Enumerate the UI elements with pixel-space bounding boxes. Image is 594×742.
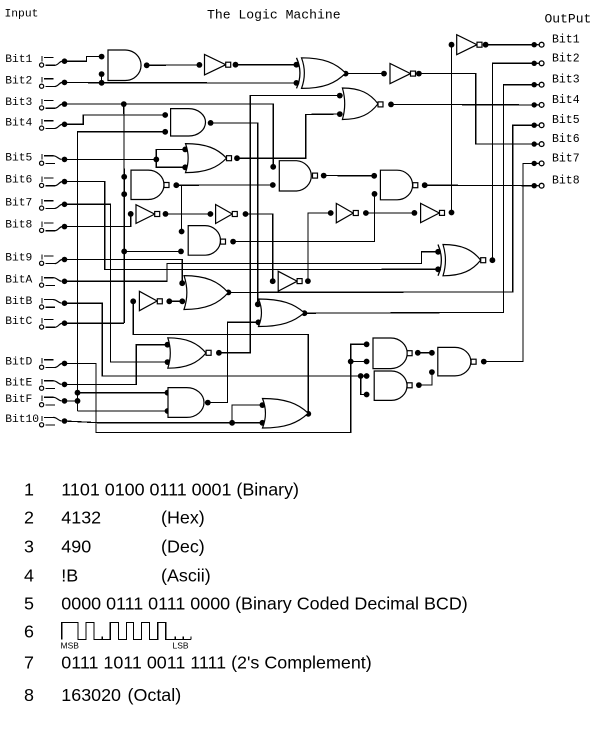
output terminal out Bit7 xyxy=(532,152,580,166)
output terminal out Bit8 xyxy=(532,175,580,189)
input switch Bit9 xyxy=(5,253,67,266)
svg-text:Bit6: Bit6 xyxy=(552,133,580,146)
input switch BitE xyxy=(5,377,67,390)
output terminal out Bit2 xyxy=(532,52,580,66)
input switch BitB xyxy=(5,296,67,309)
NAND gate U22 xyxy=(374,371,407,400)
wire Bit3/BitC vertical bus x124 with taps to NAND U7 inputs and NAND U12 bottom feed xyxy=(123,104,125,323)
svg-text:OutPut: OutPut xyxy=(545,11,592,26)
wire Bit2 junction stub up to AND U1 bottom input xyxy=(101,74,103,83)
svg-text:5: 5 xyxy=(24,594,34,614)
svg-text:Bit8: Bit8 xyxy=(552,175,580,188)
wire Bit5 switch to split loop feeding NOR U9 both inputs xyxy=(65,158,157,160)
wire Bit4 switch step up to AND U6 top input xyxy=(65,115,166,124)
wire BitD switch down x96, east at y433, up x351 to NAND U21 inputs xyxy=(65,344,367,432)
svg-text:Bit1: Bit1 xyxy=(552,34,580,47)
svg-text:MSB: MSB xyxy=(61,641,80,651)
wire Bit7 switch down x110 and east to NOR U20 bottom input xyxy=(65,204,168,362)
wire NAND U22 lower input branch from y376 line xyxy=(361,376,367,395)
input switch BitC xyxy=(5,316,67,329)
wire NAND U27 output east, up x522.9 to output Bit7 xyxy=(484,163,532,361)
wire NOR U20 output east, up x250, east to NOR U5 top input xyxy=(219,96,340,353)
wire NOT U25 output to OR U16 bottom input xyxy=(169,300,182,302)
svg-text:Bit2: Bit2 xyxy=(5,75,32,87)
wire Bit2 switch to XOR U3, junction to AND U1 bottom input xyxy=(65,81,297,84)
wire XOR U3 output to NOT U4 input xyxy=(346,73,384,75)
NOR gate U5 (to output Bit4) xyxy=(342,88,378,120)
output terminal out Bit1 xyxy=(532,34,580,48)
svg-text:0111 1011 0011 1111 (2's Compl: 0111 1011 0011 1111 (2's Complement) xyxy=(61,653,371,673)
svg-text:BitF: BitF xyxy=(5,394,32,406)
wire NOT U26 output to output Bit1 xyxy=(486,44,532,46)
wire NAND U21 lower input branch tap xyxy=(351,361,367,363)
output terminal out Bit6 xyxy=(532,133,580,147)
AND gate U23 (BitF buffer) xyxy=(168,388,204,418)
NOT gate U10 (Bit8) xyxy=(136,205,155,224)
wire NOR U9 output east, up x306, east to NOR U5 bottom input xyxy=(237,114,340,158)
svg-text:BitA: BitA xyxy=(5,274,32,286)
wire BitF switch to vertical bus x77.5 xyxy=(65,400,78,402)
wire Bit10 switch east to OR U24 bottom input with junction riser xyxy=(65,421,263,423)
NAND gate U21 xyxy=(373,338,407,369)
svg-text:Bit8: Bit8 xyxy=(5,220,32,232)
svg-text:8: 8 xyxy=(24,685,34,705)
wire NAND U21 output to NAND U27 top input xyxy=(418,352,432,354)
wire NOT U18 output up x308 east to NOT U14 input xyxy=(308,213,331,281)
input switch Bit2 xyxy=(5,75,67,88)
svg-text:Bit10: Bit10 xyxy=(5,414,39,426)
XNOR gate U19 (to output Bit2) xyxy=(438,245,441,276)
wire AND U6 output east then down x258 to OR U17 top input xyxy=(211,123,258,304)
NAND gate U8 xyxy=(279,161,311,191)
svg-text:BitE: BitE xyxy=(5,377,32,389)
svg-text:(Dec): (Dec) xyxy=(161,537,205,557)
wire BitF vertical bus x77.5 from AND U6 bottom input feed down to AND U23 bottom feed xyxy=(78,132,166,411)
NOT gate U4 xyxy=(390,64,411,84)
wire Bit6 switch down x105 and east to XNOR U19 bottom input xyxy=(65,182,439,270)
NOT gate U26 (to output Bit1) xyxy=(457,35,477,55)
svg-text:2: 2 xyxy=(24,508,34,528)
svg-text:0000 0111 0111 0000 (Binary Co: 0000 0111 0111 0000 (Binary Coded Decima… xyxy=(61,594,467,614)
svg-text:(Octal): (Octal) xyxy=(128,685,182,705)
svg-text:1101 0100 0111 0001 (Binary): 1101 0100 0111 0001 (Binary) xyxy=(61,480,299,500)
wire Bit1 switch to AND U1 top input xyxy=(65,57,102,62)
NOT gate U2 xyxy=(205,55,226,75)
wire NAND U7 output east to NAND U8 bottom input, riser down to NAND U12 top input xyxy=(176,184,272,186)
NOR gate U20 (BitE,Bit7) xyxy=(168,338,206,368)
svg-text:!B: !B xyxy=(61,566,78,586)
svg-text:Bit4: Bit4 xyxy=(552,94,580,107)
NAND gate U12 xyxy=(188,226,220,256)
NOT gate U15 xyxy=(421,203,440,222)
svg-text:7: 7 xyxy=(24,653,34,673)
svg-text:Bit6: Bit6 xyxy=(5,175,32,187)
wire BitF tap east to AND U23 top input xyxy=(78,392,168,394)
svg-text:Bit7: Bit7 xyxy=(552,152,580,165)
svg-text:Bit1: Bit1 xyxy=(5,54,32,66)
NOT gate U14 xyxy=(336,203,353,222)
input switch BitA xyxy=(5,274,67,287)
NAND gate U27 (to output Bit7) xyxy=(438,347,471,376)
wire OR U17 output east, up x503 to output Bit3 xyxy=(304,85,532,314)
OR gate U17 (to output Bit3) xyxy=(259,299,305,327)
svg-text:BitD: BitD xyxy=(5,356,32,368)
svg-text:BitC: BitC xyxy=(5,316,32,328)
NOT gate U18 xyxy=(278,271,297,291)
wire Bit3 switch east, junction at x124, corner down to NAND U8 top input xyxy=(65,104,274,167)
OR gate U24 (Bit10 buffer) xyxy=(263,399,309,429)
wire Bit8 switch east then up to NOT U10 input xyxy=(65,214,131,227)
svg-text:4132: 4132 xyxy=(61,508,101,528)
input switch Bit8 xyxy=(5,220,67,233)
result line 6 waveform xyxy=(62,623,191,640)
NOT gate U11 xyxy=(216,205,233,224)
wire Bit5 loop lower branch to NOR U9 bottom input xyxy=(156,159,185,167)
NAND gate U7 (Bit3,BitC) xyxy=(131,170,164,199)
wire Bit9 switch east then down to OR U16 top input xyxy=(65,260,183,284)
wire NOT U4 output east, down x476, east to output Bit6 xyxy=(419,74,532,145)
wire XNOR U19 output up x492.6 to output Bit2 xyxy=(492,63,532,260)
svg-text:163020: 163020 xyxy=(61,685,121,705)
svg-text:Bit3: Bit3 xyxy=(5,97,32,109)
input switch BitD xyxy=(5,356,67,369)
wire BitB switch east, down x102, east at y376 to NAND U22 inputs xyxy=(65,303,367,376)
XOR gate U3 xyxy=(297,58,300,89)
wire NAND U12 top input riser from NAND U7 output line xyxy=(181,185,183,231)
output terminal out Bit5 xyxy=(532,114,580,128)
wire NAND U12 output east, up x374.5 to NAND U13 bottom input xyxy=(233,194,374,242)
AND gate U6 (Bit4,BitF) xyxy=(171,109,206,136)
svg-text:Bit5: Bit5 xyxy=(552,114,580,127)
output terminal out Bit4 xyxy=(532,94,580,108)
svg-text:4: 4 xyxy=(24,566,34,586)
svg-text:LSB: LSB xyxy=(173,641,189,651)
wire BitE switch east, up x136 to NOR U20 top input xyxy=(65,345,168,385)
input switch BitF xyxy=(5,394,67,407)
input switch Bit4 xyxy=(5,117,67,130)
wire NAND U13 output to output Bit8 xyxy=(425,184,532,187)
input switch Bit3 xyxy=(5,97,67,110)
wire AND U23 output east, up x227, east y322 to OR U17 bottom input xyxy=(208,322,259,402)
svg-text:6: 6 xyxy=(24,621,34,641)
input switch Bit1 xyxy=(5,54,67,67)
wire NOR U5 output to output Bit4 xyxy=(391,103,532,106)
wire BitC switch to vertical bus x124 xyxy=(65,322,125,324)
wire Bit10 riser to OR U24 top input xyxy=(232,405,262,423)
wire OR U16 output east, up x512.8 to output Bit5 xyxy=(228,125,532,292)
wire NOT U2 output to XOR U3 top input xyxy=(236,64,297,66)
svg-text:Bit5: Bit5 xyxy=(5,152,32,164)
output terminal out Bit3 xyxy=(532,74,580,88)
input switch Bit7 xyxy=(5,197,67,210)
wire OR U24 output up x308.5, west y334.4, up x133 to NOT U25 input xyxy=(133,301,308,414)
svg-text:Bit7: Bit7 xyxy=(5,197,32,209)
wire NOT U14 output to NOT U15 input xyxy=(366,212,415,214)
svg-text:490: 490 xyxy=(61,537,91,557)
svg-text:The Logic Machine: The Logic Machine xyxy=(207,7,341,22)
svg-text:Bit3: Bit3 xyxy=(552,74,580,87)
wire BitC tap to NAND U12 bottom input xyxy=(124,250,181,252)
wire NOT U11 output east then down x272.7 to NOT U18 input xyxy=(246,214,273,281)
input switch Bit5 xyxy=(5,152,67,165)
svg-text:3: 3 xyxy=(24,537,34,557)
wire BitF bottom corner east to AND U23 bottom input xyxy=(78,410,168,412)
waveform bit ticks xyxy=(102,636,191,639)
wire AND U1 output to NOT U2 input xyxy=(147,64,200,66)
NAND gate U13 (to output Bit8) xyxy=(380,170,412,200)
NOR gate U9 (Bit5) xyxy=(186,144,227,173)
svg-text:Bit9: Bit9 xyxy=(5,253,32,265)
NOT gate U25 xyxy=(139,291,157,310)
OR gate U16 (to output Bit5) xyxy=(184,276,228,310)
input switch Bit6 xyxy=(5,175,67,188)
svg-text:Bit2: Bit2 xyxy=(552,52,580,65)
wire NAND U8 output to NAND U13 top input xyxy=(324,175,375,177)
svg-text:(Hex): (Hex) xyxy=(161,508,205,528)
svg-text:1: 1 xyxy=(24,480,34,500)
svg-text:(Ascii): (Ascii) xyxy=(161,566,211,586)
svg-text:BitB: BitB xyxy=(5,296,32,308)
wire NAND U22 output east up to NAND U27 bottom input xyxy=(419,372,432,385)
input switch Bit10 xyxy=(5,414,67,427)
wire NOT U10 output to NOT U11 input xyxy=(166,213,211,215)
svg-text:Bit4: Bit4 xyxy=(5,117,32,129)
svg-text:Input: Input xyxy=(5,8,39,20)
wire BitA switch east, up at x167, east at y263, to XNOR U19 top input xyxy=(65,252,439,281)
AND gate U1 (Bit1,Bit2) xyxy=(108,50,141,81)
wire Bit5 loop upper branch to NOR U9 top input xyxy=(156,149,185,159)
wire NOT U15 output up x451.5 to NOT U26 input xyxy=(451,45,453,213)
